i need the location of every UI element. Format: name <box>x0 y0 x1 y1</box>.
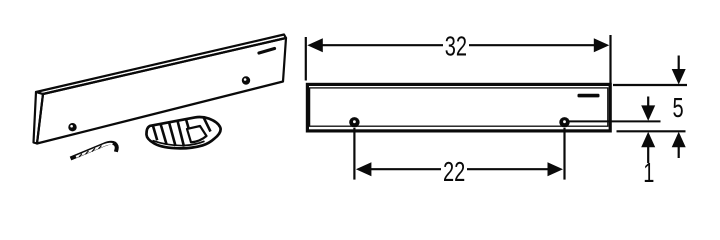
hook pin tool <box>71 143 117 159</box>
dimension 22 extension line left <box>353 128 355 180</box>
comb insert <box>146 117 220 148</box>
svg-text:1: 1 <box>643 158 654 189</box>
front view inner rectangle <box>310 88 608 126</box>
front view outer rectangle <box>307 84 610 130</box>
dimension 22 line <box>368 168 551 170</box>
svg-text:22: 22 <box>443 157 465 188</box>
screw S4 front view <box>559 117 569 127</box>
screw-line leader for dim 1 <box>570 120 661 122</box>
dimension 32 line <box>320 44 597 46</box>
top edge extension line for dim 5 <box>613 84 687 86</box>
screw S3 front view <box>349 117 359 127</box>
dimension 1 lower arrow <box>641 132 655 163</box>
logo mark on panel <box>259 49 275 54</box>
svg-text:32: 32 <box>445 31 467 62</box>
svg-text:5: 5 <box>673 93 684 124</box>
dimension 32 extension line right <box>609 35 611 83</box>
dimension 32 extension line left <box>305 37 307 81</box>
logo mark on front view <box>578 94 600 98</box>
screw S2 on panel <box>242 76 250 84</box>
dimension 5 lower arrow <box>672 132 686 158</box>
panel left end face <box>34 92 44 144</box>
panel top face <box>36 35 286 95</box>
screw S1 on panel <box>68 123 76 131</box>
dimension 1 upper arrow <box>641 97 655 121</box>
dimension 32 arrowheads <box>307 38 323 52</box>
dimension 5 upper arrow <box>672 56 686 85</box>
dimension 22 arrowheads <box>356 162 372 176</box>
dimension 22 extension line right <box>563 128 565 180</box>
panel front face <box>37 38 286 144</box>
bottom edge extension line <box>617 130 686 132</box>
